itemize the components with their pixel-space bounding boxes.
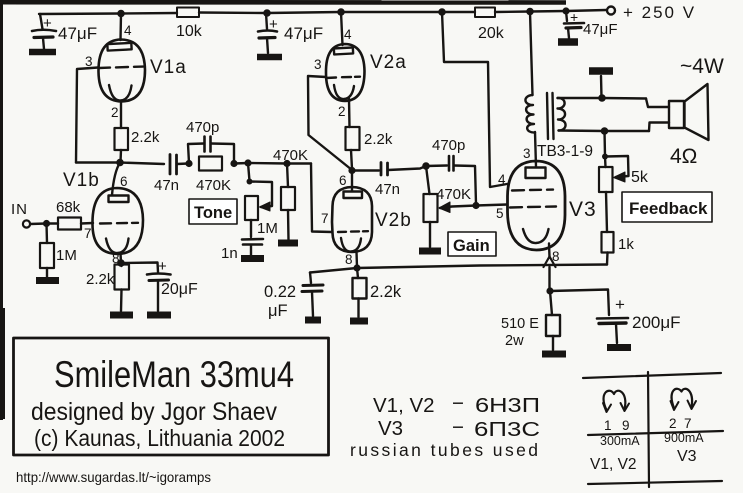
tube V1a cathode bbox=[109, 85, 132, 101]
svg-text:7: 7 bbox=[84, 226, 92, 241]
svg-text:designed by Jgor Shaev: designed by Jgor Shaev bbox=[31, 398, 277, 426]
node gain top bbox=[422, 162, 430, 170]
tube V2a envelope bbox=[326, 44, 365, 101]
svg-text:5: 5 bbox=[496, 206, 504, 221]
svg-text:V2a: V2a bbox=[370, 52, 407, 73]
svg-text:IN: IN bbox=[11, 201, 28, 218]
resistor 470k (shunt to ground) bbox=[287, 164, 288, 188]
resistor 510E 2w bbox=[550, 291, 552, 315]
node V1b cathode bbox=[117, 259, 125, 267]
svg-text:−: − bbox=[452, 416, 464, 439]
svg-text:2: 2 bbox=[111, 105, 119, 120]
tube V3 screen grid (dashed) bbox=[512, 188, 553, 191]
svg-text:2.2k: 2.2k bbox=[364, 131, 393, 148]
ground (2.2k V1b) bbox=[110, 312, 133, 319]
resistor 2.2k (V1b cathode) bbox=[120, 263, 123, 266]
wire SRPP2 node to V2b plate bbox=[351, 170, 353, 191]
capacitor C 47uF (right) bbox=[562, 7, 617, 38]
input terminal IN bbox=[23, 220, 30, 227]
tube V3 cathode bbox=[523, 229, 549, 243]
tube V2b plate bbox=[344, 192, 363, 199]
wire B+ rail segment A bbox=[39, 13, 177, 14]
svg-text:10k: 10k bbox=[176, 23, 203, 40]
node 470k shunt bbox=[283, 160, 290, 167]
node V1a anode bbox=[117, 10, 125, 18]
svg-text:(c) Kaunas, Lithuania 2002: (c) Kaunas, Lithuania 2002 bbox=[34, 425, 285, 451]
resistor 1M (input) bbox=[45, 224, 48, 244]
node transformer primary bbox=[526, 8, 534, 16]
svg-text:Feedback: Feedback bbox=[629, 199, 708, 218]
svg-text:+: + bbox=[269, 16, 278, 33]
svg-text:4: 4 bbox=[124, 23, 132, 38]
resistor 1k bbox=[602, 232, 614, 253]
wire secondary top bbox=[558, 97, 647, 100]
wire 47n to gain pot bbox=[388, 166, 426, 170]
svg-text:47μF: 47μF bbox=[58, 24, 97, 43]
SRPP1 junction wire bbox=[76, 163, 164, 165]
node 5k wiper tie bbox=[602, 154, 608, 160]
resistor 20k bbox=[475, 8, 495, 18]
svg-text:300mA: 300mA bbox=[600, 434, 640, 448]
ground (470k shunt) bbox=[278, 240, 298, 247]
svg-text:200μF: 200μF bbox=[632, 313, 681, 332]
wire speaker top jog bbox=[646, 99, 669, 108]
svg-text:0.22: 0.22 bbox=[264, 283, 296, 301]
ground (C2) bbox=[257, 54, 282, 61]
svg-text:V3: V3 bbox=[378, 417, 403, 440]
tube V1b cathode bbox=[106, 239, 129, 254]
transformer TB3-1-9 primary bbox=[525, 95, 535, 133]
node SRPP2 bbox=[348, 167, 355, 174]
svg-text:V1a: V1a bbox=[150, 57, 187, 78]
svg-text:1M: 1M bbox=[56, 247, 77, 264]
node V3 cathode bbox=[546, 287, 553, 294]
svg-text:47n: 47n bbox=[154, 177, 179, 194]
svg-text:russian tubes used: russian tubes used bbox=[350, 440, 538, 460]
node tone pot bbox=[244, 159, 251, 166]
svg-text:20k: 20k bbox=[478, 25, 505, 42]
svg-text:1k: 1k bbox=[618, 236, 634, 253]
svg-text:+ 250 V: + 250 V bbox=[623, 3, 696, 22]
wire tone out to V2b grid bbox=[311, 164, 332, 233]
resistor 68k bbox=[47, 222, 59, 224]
wire V1b cathode lead bbox=[119, 254, 122, 263]
wire 1k to feedback bus bbox=[606, 253, 609, 265]
svg-text:V3: V3 bbox=[677, 448, 697, 465]
wire to 200uF bbox=[550, 290, 609, 316]
ground (1n) bbox=[241, 255, 264, 262]
svg-text:68k: 68k bbox=[56, 199, 81, 216]
tube V1b grid (dashed) bbox=[100, 222, 138, 225]
ground (20uF) bbox=[147, 312, 171, 319]
tube V2b envelope bbox=[332, 187, 372, 252]
tube V3 envelope bbox=[508, 161, 566, 250]
capacitor 47n (stage2 coupling) bbox=[381, 163, 388, 176]
wire 2.2k to node bbox=[119, 150, 122, 162]
svg-text:3: 3 bbox=[85, 54, 93, 69]
long wire V2b cathode / feedback bus bbox=[310, 265, 607, 273]
ground (200uF) bbox=[607, 344, 631, 351]
heater arrows V3 bbox=[672, 389, 692, 408]
wire V2a pin4 bbox=[341, 12, 343, 45]
node gain wiper bbox=[472, 202, 479, 209]
svg-text:4: 4 bbox=[344, 27, 352, 42]
capacitor 470p (gain bypass) bbox=[426, 166, 476, 205]
potentiometer 1M (tone) bbox=[245, 196, 258, 220]
tube V3 plate bbox=[526, 168, 546, 179]
wire primary top bbox=[530, 12, 533, 95]
svg-text:510 E: 510 E bbox=[501, 316, 539, 332]
heater table top line bbox=[583, 373, 721, 378]
svg-text:SmileMan 33mu4: SmileMan 33mu4 bbox=[54, 354, 294, 395]
wire V3 plate lead bbox=[535, 132, 536, 167]
svg-text:TB3-1-9: TB3-1-9 bbox=[537, 143, 593, 160]
capacitor 1n bbox=[250, 220, 252, 237]
svg-text:V1, V2: V1, V2 bbox=[590, 456, 637, 473]
svg-text:2: 2 bbox=[338, 104, 346, 119]
svg-text:47μF: 47μF bbox=[284, 24, 323, 43]
heater arrows V1 V2 bbox=[604, 391, 626, 410]
svg-text:47n: 47n bbox=[375, 181, 400, 198]
capacitor 0.22uF bbox=[303, 284, 323, 288]
ground (gain pot) bbox=[419, 248, 441, 255]
transformer secondary bbox=[558, 98, 566, 131]
wire secondary top ground stem bbox=[600, 76, 603, 98]
ground (0.22uF) bbox=[305, 317, 321, 324]
resistor 2.2k (V2a cathode) bbox=[346, 127, 360, 150]
svg-text:Tone: Tone bbox=[194, 204, 232, 222]
svg-text:4Ω: 4Ω bbox=[670, 145, 697, 168]
svg-text:V3: V3 bbox=[569, 198, 597, 221]
svg-text:V1b: V1b bbox=[63, 170, 100, 191]
wire B+ rail segment B bbox=[199, 12, 475, 13]
svg-text:6: 6 bbox=[120, 174, 128, 189]
svg-text:6Н3П: 6Н3П bbox=[475, 394, 540, 417]
tube V2b grid (dashed) bbox=[338, 230, 368, 233]
wire 0.22uF branch bbox=[310, 273, 311, 284]
speaker driver bbox=[669, 101, 684, 128]
svg-text:2.2k: 2.2k bbox=[370, 283, 402, 301]
tube V1b plate bbox=[109, 196, 129, 203]
wire V2b cathode lead bbox=[355, 252, 358, 267]
wire tone pot top bbox=[248, 163, 250, 181]
svg-text:7: 7 bbox=[684, 416, 692, 431]
svg-text:μF: μF bbox=[268, 302, 288, 320]
svg-text:9: 9 bbox=[622, 418, 630, 433]
capacitor C 47uF (left) bbox=[32, 14, 97, 49]
ground (510E) bbox=[542, 351, 566, 358]
scan border top bbox=[2, 0, 566, 5]
ground (2.2k V2b) bbox=[350, 318, 368, 325]
terminal +250V bbox=[607, 7, 615, 15]
svg-text:4: 4 bbox=[498, 172, 506, 187]
svg-text:470K: 470K bbox=[196, 177, 231, 194]
svg-text:V2b: V2b bbox=[375, 210, 412, 231]
svg-text:47μF: 47μF bbox=[583, 21, 618, 38]
ground (C1) bbox=[29, 49, 56, 56]
resistor 10k bbox=[177, 8, 199, 18]
svg-text:20μF: 20μF bbox=[161, 281, 198, 298]
svg-text:+: + bbox=[615, 295, 625, 314]
node secondary top bbox=[598, 94, 606, 102]
ground (1M) bbox=[36, 277, 59, 284]
wire SRPP2 out to 47n bbox=[352, 169, 379, 171]
node secondary bottom bbox=[601, 127, 609, 135]
svg-text:2: 2 bbox=[669, 416, 677, 431]
tube V2a cathode bbox=[334, 85, 354, 99]
box label Tone bbox=[189, 199, 237, 224]
box label Feedback bbox=[622, 192, 712, 222]
tube V1a plate bbox=[107, 43, 131, 51]
wire 47n to node bbox=[177, 162, 188, 165]
wire secondary bottom to 5k bbox=[603, 131, 606, 156]
svg-text:2w: 2w bbox=[505, 333, 524, 349]
node V2b cathode bbox=[353, 264, 360, 271]
wire V3 cathode lead with hop bbox=[548, 244, 551, 258]
potentiometer 5k (feedback) bbox=[604, 157, 607, 168]
svg-text:+: + bbox=[43, 15, 52, 32]
heater table mid line bbox=[588, 431, 723, 435]
svg-text:470K: 470K bbox=[436, 186, 471, 203]
svg-text:~4W: ~4W bbox=[680, 55, 724, 78]
tube V1a envelope bbox=[98, 40, 145, 102]
svg-text:5k: 5k bbox=[631, 169, 649, 186]
capacitor 200uF bbox=[597, 317, 628, 320]
capacitor 47n (stage1 coupling) bbox=[170, 155, 177, 175]
wire gain pot to ground bbox=[429, 222, 431, 247]
wire V2a cathode lead bbox=[348, 99, 351, 127]
svg-text:1n: 1n bbox=[221, 245, 238, 262]
ground (C3) bbox=[558, 38, 578, 46]
svg-text:470p: 470p bbox=[186, 119, 219, 136]
tube V2b cathode bbox=[341, 238, 361, 252]
svg-text:2.2k: 2.2k bbox=[131, 129, 160, 146]
svg-text:6П3С: 6П3С bbox=[474, 418, 540, 441]
wire V3 screen supply bbox=[442, 12, 507, 187]
heater table bottom line bbox=[588, 481, 722, 484]
wire V1a pin4 bbox=[119, 14, 122, 40]
svg-text:470K: 470K bbox=[273, 147, 308, 164]
svg-text:+: + bbox=[570, 9, 578, 25]
potentiometer 470K (gain) bbox=[426, 166, 430, 194]
svg-text:6: 6 bbox=[339, 173, 347, 188]
svg-text:8: 8 bbox=[552, 249, 560, 264]
node B+ to V3 screen bbox=[438, 8, 446, 16]
svg-text:1: 1 bbox=[604, 418, 612, 433]
svg-text:3: 3 bbox=[314, 57, 322, 72]
speaker cone bbox=[685, 84, 709, 140]
node 470p right bbox=[230, 160, 237, 167]
svg-text:V1, V2: V1, V2 bbox=[373, 394, 435, 417]
tube V1b envelope bbox=[92, 188, 143, 254]
resistor 2.2k (V1a cathode) bbox=[115, 128, 129, 150]
wire IN to node bbox=[30, 222, 46, 225]
capacitor 470p (bypass loop) bbox=[188, 144, 234, 164]
heater table vertical line bbox=[648, 372, 649, 487]
tube V2a grid (dashed) bbox=[326, 77, 360, 78]
title box bbox=[14, 338, 329, 455]
resistor 470k (series) bbox=[199, 157, 222, 171]
wire secondary bottom bbox=[559, 129, 650, 132]
wire 470k right to tone bbox=[234, 162, 311, 165]
svg-text:3: 3 bbox=[523, 146, 531, 161]
tube V3 control grid (dashed) bbox=[510, 207, 556, 208]
wire SRPP1 node to V1b plate bbox=[112, 163, 120, 196]
ground (secondary) bbox=[589, 67, 613, 75]
wire V2a grid to SRPP2 node bbox=[308, 76, 352, 170]
capacitor 20uF bbox=[121, 263, 158, 273]
svg-text:2.2k: 2.2k bbox=[86, 271, 115, 288]
capacitor C 47uF (mid) bbox=[258, 9, 323, 53]
wire 5k to 1k bbox=[606, 192, 607, 232]
tube V1a grid (dashed) bbox=[99, 67, 143, 68]
svg-text:7: 7 bbox=[321, 211, 329, 226]
scan border left bbox=[0, 0, 3, 420]
resistor 2.2k (V2b cathode) bbox=[357, 268, 358, 278]
node V2a anode bbox=[337, 8, 345, 16]
svg-text:470p: 470p bbox=[432, 137, 465, 154]
svg-text:−: − bbox=[452, 392, 464, 415]
svg-text:8: 8 bbox=[345, 252, 353, 267]
wire B+ rail segment C bbox=[495, 10, 606, 12]
transformer core bbox=[547, 93, 554, 139]
node tone pot wiper tie bbox=[247, 179, 253, 185]
scan border left thick patch bbox=[0, 308, 5, 419]
wire V1a cathode lead bbox=[120, 101, 122, 128]
node 470p left bbox=[185, 160, 192, 167]
wire 2.2k to SRPP2 node bbox=[351, 150, 352, 169]
svg-text:+: + bbox=[158, 258, 167, 275]
wire 68k to V1b grid bbox=[81, 222, 93, 225]
svg-text:1M: 1M bbox=[257, 220, 278, 237]
svg-text:Gain: Gain bbox=[453, 237, 490, 255]
node SRPP1 bbox=[116, 159, 124, 167]
node input bbox=[43, 220, 50, 227]
box label Gain bbox=[448, 232, 496, 256]
svg-text:900mA: 900mA bbox=[664, 431, 704, 445]
wire wiper to V3 grid bbox=[476, 205, 507, 206]
svg-text:http://www.sugardas.lt/~igoram: http://www.sugardas.lt/~igoramps bbox=[16, 469, 211, 485]
wire speaker bottom jog bbox=[649, 123, 669, 132]
tube V2a plate bbox=[334, 47, 353, 54]
wire V1a grid to SRPP1 node bbox=[76, 68, 98, 163]
